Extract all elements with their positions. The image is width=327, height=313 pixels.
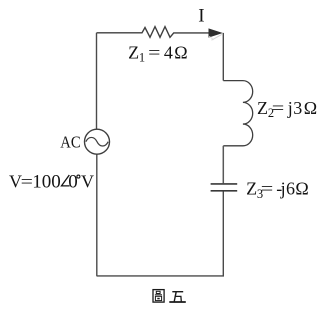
svg-text:j: j bbox=[287, 98, 293, 118]
svg-text:0: 0 bbox=[68, 171, 78, 192]
svg-text:=: = bbox=[21, 171, 33, 191]
svg-text:Ω: Ω bbox=[304, 98, 317, 118]
svg-text:4: 4 bbox=[164, 42, 173, 62]
svg-text:j: j bbox=[280, 179, 286, 199]
svg-text:=: = bbox=[272, 98, 285, 118]
svg-text:6: 6 bbox=[286, 179, 295, 199]
svg-text:Z: Z bbox=[128, 42, 139, 62]
svg-text:Z: Z bbox=[257, 98, 268, 118]
svg-text:AC: AC bbox=[60, 133, 80, 152]
svg-text:Ω: Ω bbox=[174, 42, 187, 62]
svg-text:Ω: Ω bbox=[295, 179, 308, 199]
svg-text:3: 3 bbox=[293, 98, 302, 118]
svg-text:=: = bbox=[148, 42, 160, 62]
svg-text:Z: Z bbox=[246, 179, 257, 199]
svg-text:V: V bbox=[81, 171, 94, 191]
svg-text:=: = bbox=[261, 179, 274, 199]
svg-text:1: 1 bbox=[139, 51, 145, 65]
svg-text:100: 100 bbox=[32, 171, 61, 192]
svg-text:I: I bbox=[198, 6, 204, 27]
